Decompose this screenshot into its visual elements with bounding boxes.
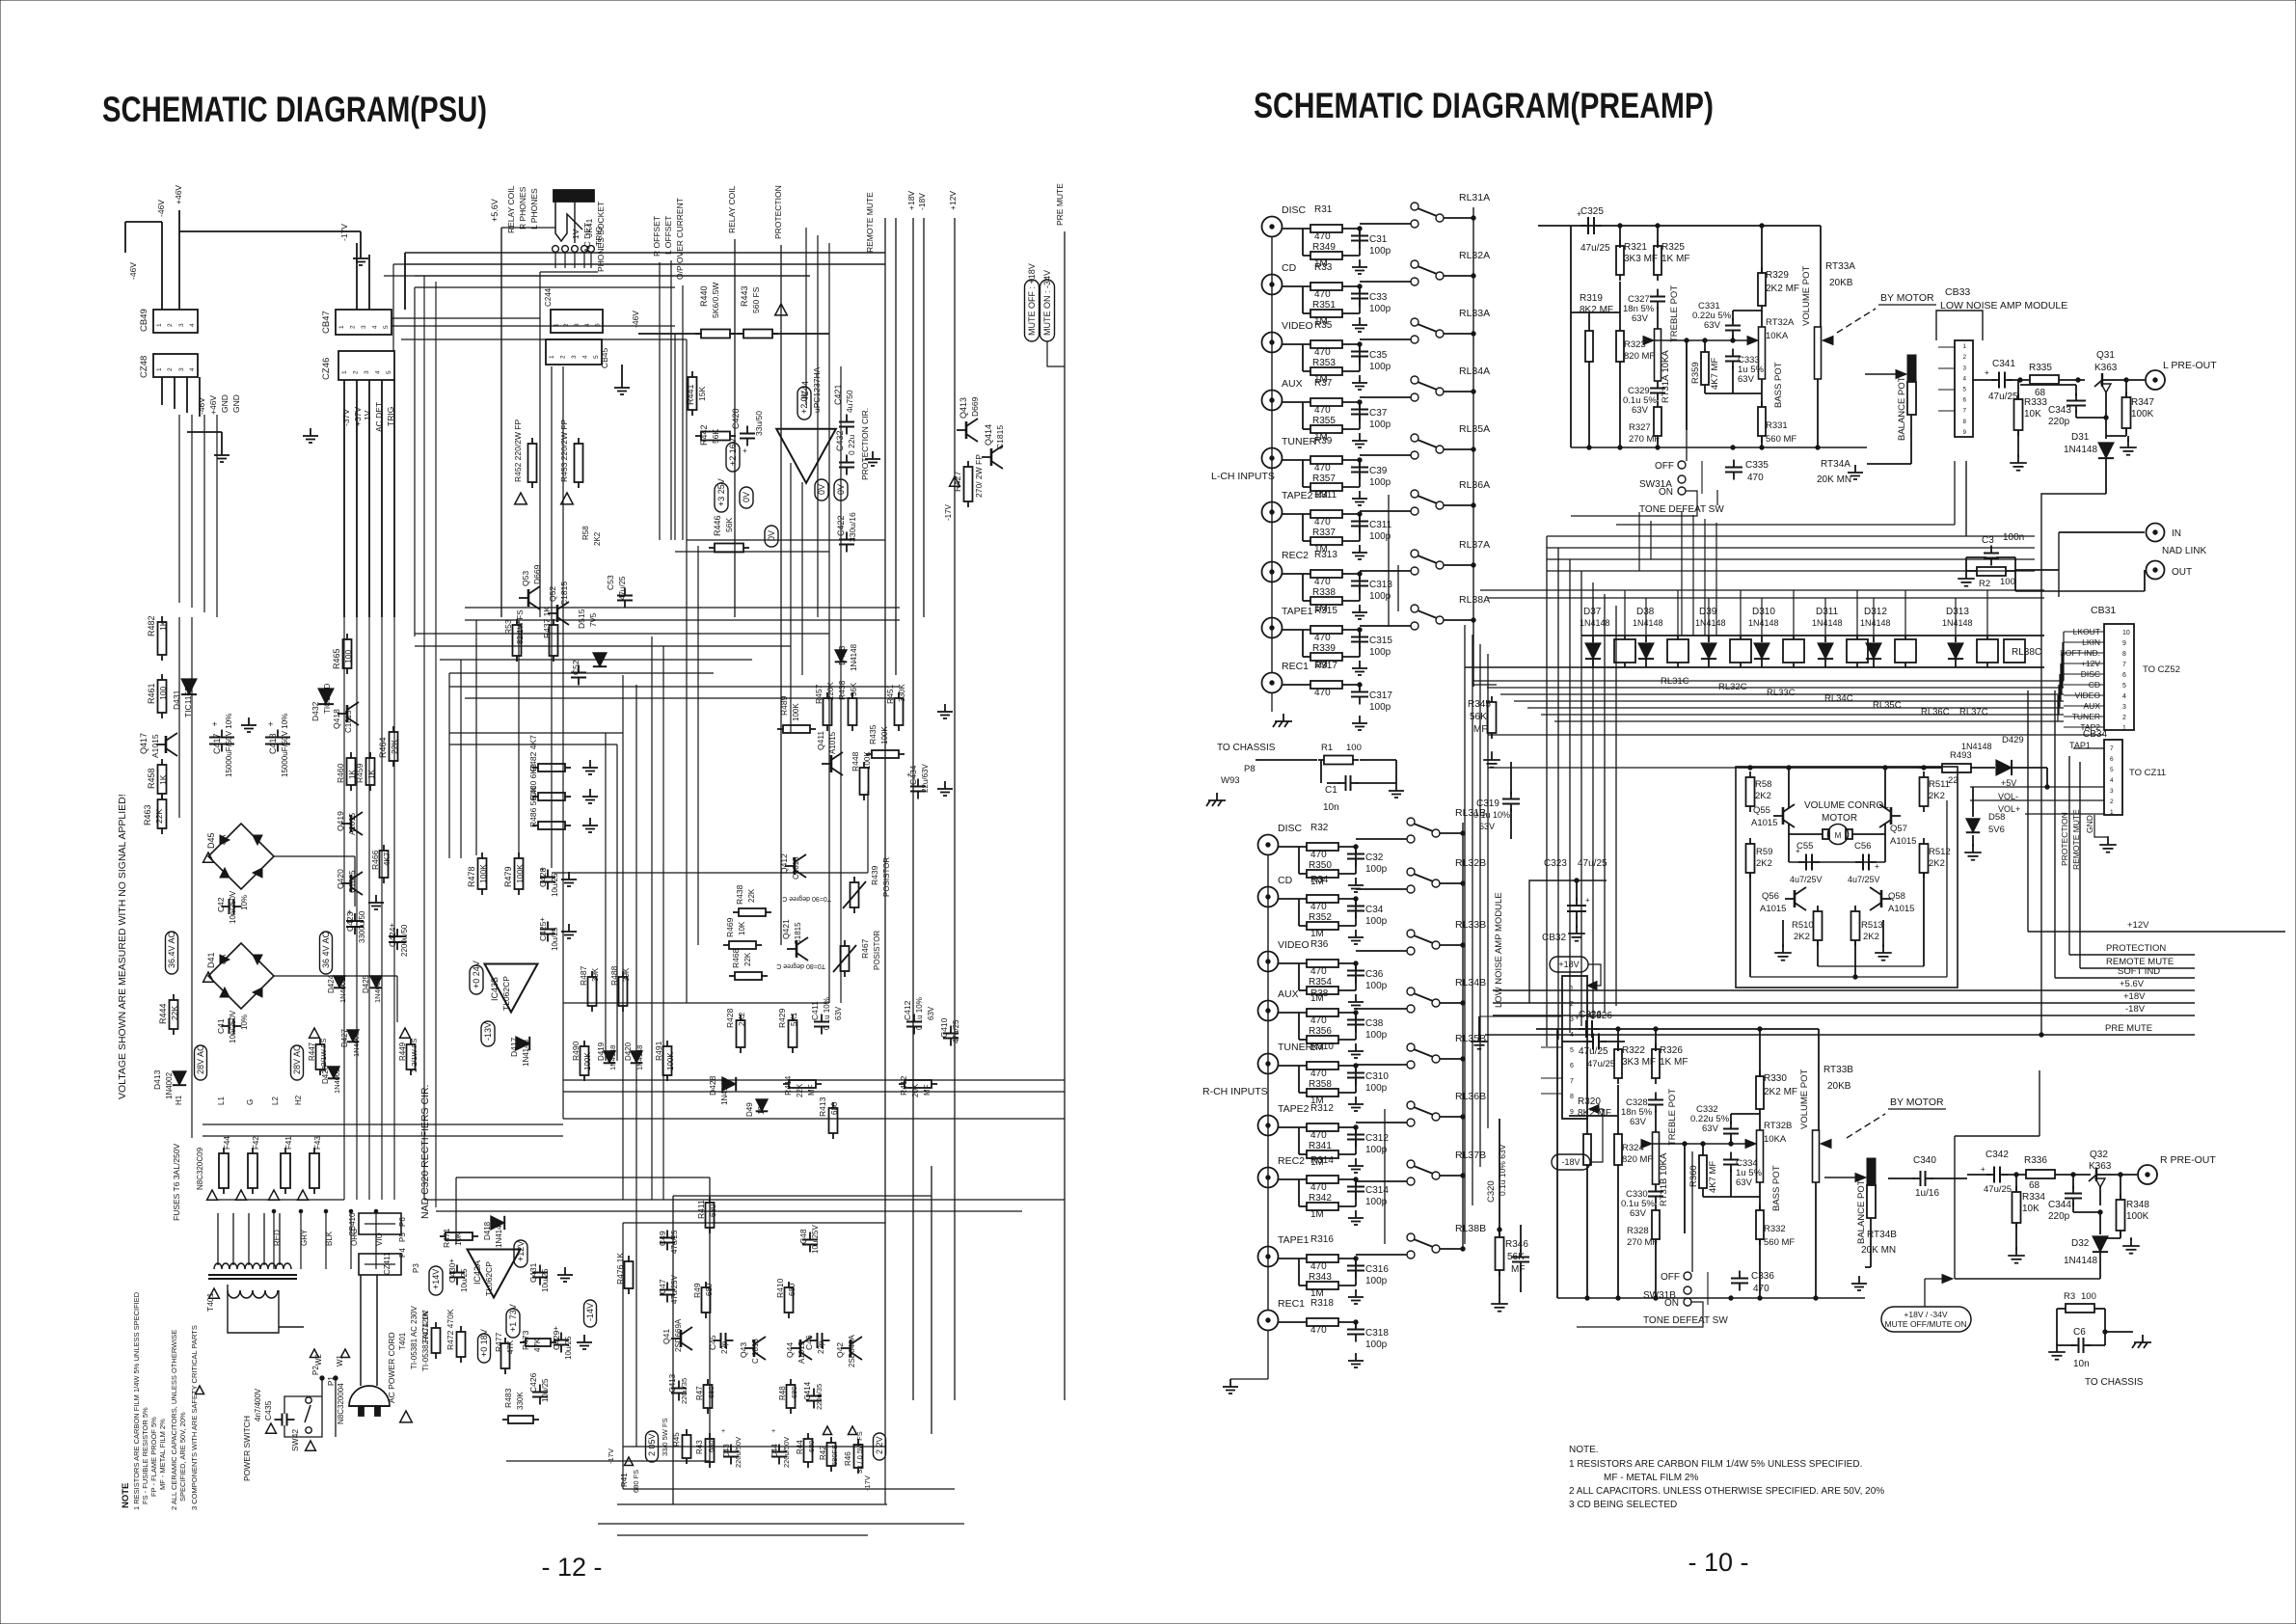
svg-text:1u/16: 1u/16 [1915, 1188, 1939, 1199]
svg-text:+2.0V: +2.0V [799, 391, 809, 414]
svg-text:R511: R511 [1929, 779, 1950, 790]
svg-text:470: 470 [1310, 966, 1327, 977]
svg-text:RL35C: RL35C [1873, 700, 1902, 711]
svg-text:R39: R39 [1314, 436, 1333, 447]
svg-text:15K: 15K [697, 387, 707, 401]
svg-text:56K: 56K [1507, 1252, 1525, 1262]
svg-text:TO CZ11: TO CZ11 [2129, 768, 2166, 778]
svg-text:OFF: OFF [1661, 1272, 1680, 1283]
svg-text:C325: C325 [1580, 206, 1604, 217]
svg-text:NAD LINK: NAD LINK [2162, 546, 2206, 556]
svg-text:+12V: +12V [948, 191, 958, 210]
svg-text:P2: P2 [311, 1366, 320, 1375]
svg-text:CB49: CB49 [139, 309, 149, 332]
svg-text:10u/25: 10u/25 [541, 1378, 550, 1402]
svg-text:MOTOR: MOTOR [1822, 813, 1857, 824]
svg-text:1N4148: 1N4148 [1633, 618, 1663, 628]
svg-text:P6: P6 [398, 1217, 407, 1227]
svg-text:22K: 22K [796, 1083, 804, 1097]
svg-text:R465: R465 [332, 648, 341, 669]
svg-text:4: 4 [1963, 375, 1967, 382]
svg-text:+: + [721, 1428, 725, 1435]
svg-text:20K MN: 20K MN [1861, 1245, 1896, 1256]
svg-text:R468: R468 [731, 948, 741, 968]
svg-text:100K: 100K [792, 703, 800, 721]
svg-text:0 1u 10%: 0 1u 10% [915, 997, 924, 1030]
svg-text:1N4148: 1N4148 [1961, 742, 1992, 751]
svg-text:1N4148: 1N4148 [2064, 1256, 2097, 1266]
svg-text:0 1u 10%: 0 1u 10% [823, 997, 831, 1030]
svg-text:ON: ON [1659, 487, 1673, 498]
svg-text:R360: R360 [1688, 1165, 1699, 1187]
svg-text:R348: R348 [2126, 1200, 2149, 1210]
svg-text:A1015: A1015 [1890, 836, 1916, 847]
svg-text:C341: C341 [1992, 359, 2015, 369]
svg-text:AC POWER CORD: AC POWER CORD [387, 1332, 396, 1403]
svg-text:4K7 MF: 4K7 MF [1710, 358, 1720, 390]
svg-text:1N4148: 1N4148 [1695, 618, 1726, 628]
svg-text:P3: P3 [412, 1263, 420, 1273]
svg-text:SW42: SW42 [290, 1429, 300, 1451]
svg-text:270/ 2W FP: 270/ 2W FP [974, 454, 984, 498]
svg-text:R32: R32 [1310, 823, 1329, 833]
svg-text:470: 470 [1310, 902, 1327, 912]
svg-text:R321: R321 [1624, 242, 1647, 253]
svg-text:2: 2 [167, 323, 174, 327]
svg-text:C6: C6 [2073, 1327, 2086, 1338]
svg-text:RT31B 10KA: RT31B 10KA [1659, 1152, 1669, 1206]
svg-text:RL37A: RL37A [1459, 539, 1490, 551]
svg-text:-13V: -13V [483, 1022, 493, 1041]
svg-text:R443: R443 [740, 285, 749, 307]
svg-text:470: 470 [1314, 405, 1331, 416]
svg-text:FS - FUSIBLE RESISTOR 5%: FS - FUSIBLE RESISTOR 5% [141, 1407, 149, 1504]
svg-text:100p: 100p [1365, 1030, 1388, 1041]
svg-text:RL36B: RL36B [1455, 1091, 1486, 1102]
svg-text:1: 1 [549, 355, 555, 359]
svg-text:RT31A 10KA: RT31A 10KA [1661, 350, 1671, 403]
svg-text:Q53: Q53 [521, 571, 530, 586]
svg-text:NOTE.: NOTE. [1569, 1445, 1599, 1455]
svg-text:47u/25: 47u/25 [1580, 243, 1610, 254]
svg-text:R487: R487 [579, 965, 588, 986]
svg-text:R333: R333 [2024, 397, 2047, 408]
svg-text:100p: 100p [1365, 864, 1388, 875]
svg-text:28V AC: 28V AC [292, 1044, 302, 1074]
svg-text:680FS: 680FS [830, 1445, 839, 1466]
svg-text:GND: GND [2085, 815, 2094, 833]
svg-text:R58: R58 [581, 526, 590, 540]
svg-text:100p: 100p [1369, 647, 1391, 658]
svg-text:4u7/25V: 4u7/25V [1848, 875, 1880, 884]
svg-text:CB31: CB31 [2091, 605, 2116, 616]
svg-text:REC2: REC2 [1278, 1155, 1305, 1167]
svg-text:F44: F44 [223, 1136, 231, 1150]
svg-text:82/1W FS: 82/1W FS [516, 609, 525, 644]
svg-text:C34: C34 [1365, 905, 1384, 915]
svg-text:RL37C: RL37C [1959, 707, 1988, 717]
svg-text:BASS POT: BASS POT [1771, 1165, 1782, 1211]
svg-text:1: 1 [338, 325, 345, 329]
svg-text:BY MOTOR: BY MOTOR [1890, 1096, 1944, 1108]
svg-text:RT32B: RT32B [1764, 1121, 1792, 1131]
svg-text:R41: R41 [620, 1473, 629, 1487]
svg-text:R478: R478 [467, 866, 476, 887]
svg-text:CB32: CB32 [1542, 933, 1566, 943]
svg-text:8: 8 [1570, 1094, 1574, 1100]
svg-text:1M: 1M [1310, 929, 1324, 939]
svg-text:R330: R330 [1764, 1073, 1787, 1084]
svg-text:63V: 63V [1704, 320, 1721, 331]
svg-text:47u/25: 47u/25 [670, 1230, 679, 1254]
svg-text:10%: 10% [240, 1015, 249, 1030]
svg-text:R327: R327 [1629, 422, 1651, 433]
svg-text:R410: R410 [775, 1278, 785, 1298]
svg-text:G: G [246, 1099, 255, 1105]
svg-text:RT34B: RT34B [1867, 1230, 1897, 1240]
svg-text:R469: R469 [725, 917, 735, 937]
svg-text:RT34A: RT34A [1821, 459, 1850, 470]
svg-text:3: 3 [361, 325, 367, 329]
svg-text:- 12 -: - 12 - [541, 1553, 602, 1582]
svg-text:Q43: Q43 [739, 1342, 748, 1358]
svg-text:Q421: Q421 [781, 919, 791, 939]
svg-text:CD: CD [1282, 262, 1297, 274]
svg-text:C39: C39 [1369, 466, 1388, 476]
svg-text:5: 5 [386, 370, 392, 374]
svg-text:K363: K363 [2089, 1161, 2112, 1172]
svg-text:0 22u: 0 22u [847, 434, 856, 455]
svg-text:5: 5 [2122, 683, 2126, 690]
svg-text:R316: R316 [1310, 1234, 1334, 1245]
svg-text:9: 9 [2122, 640, 2126, 647]
svg-text:C320: C320 [1486, 1180, 1497, 1203]
svg-text:3: 3 [178, 367, 185, 371]
svg-text:L1: L1 [217, 1096, 226, 1105]
svg-text:10%: 10% [240, 895, 249, 910]
svg-text:+: + [1575, 1013, 1580, 1022]
svg-text:C336: C336 [1751, 1271, 1774, 1282]
svg-text:2K2 MF: 2K2 MF [1766, 284, 1799, 294]
svg-text:560 FS: 560 FS [751, 286, 761, 313]
svg-text:100: 100 [2081, 1291, 2096, 1302]
svg-text:T0=80 degree C: T0=80 degree C [776, 962, 825, 969]
svg-text:R320: R320 [1578, 1096, 1601, 1107]
svg-text:1: 1 [341, 370, 348, 374]
svg-text:+12V: +12V [516, 1241, 526, 1261]
svg-text:+18V: +18V [1558, 960, 1579, 969]
svg-text:C420: C420 [731, 408, 741, 429]
svg-text:47u/25: 47u/25 [1984, 1184, 2012, 1195]
svg-text:C310: C310 [1365, 1071, 1389, 1082]
svg-text:1N4148: 1N4148 [1748, 618, 1779, 628]
svg-text:LOW NOISE AMP MODULE: LOW NOISE AMP MODULE [1940, 300, 2067, 311]
svg-text:+0 18V: +0 18V [479, 1329, 489, 1357]
svg-text:22K: 22K [154, 809, 164, 824]
svg-text:2SB649A: 2SB649A [848, 1335, 856, 1367]
svg-text:MF: MF [807, 1084, 816, 1096]
svg-text:IN: IN [2172, 528, 2181, 539]
svg-text:2: 2 [1963, 354, 1967, 361]
svg-text:K363: K363 [2094, 363, 2118, 373]
svg-text:100p: 100p [1369, 591, 1391, 602]
svg-text:R319: R319 [1580, 293, 1603, 304]
svg-text:22K: 22K [747, 888, 756, 903]
svg-text:-46V: -46V [631, 311, 640, 328]
svg-text:20KB: 20KB [1827, 1081, 1851, 1092]
svg-text:RL37B: RL37B [1455, 1150, 1486, 1161]
svg-text:470: 470 [1310, 1182, 1327, 1193]
svg-text:CD: CD [1278, 875, 1293, 886]
svg-text:680: 680 [707, 1386, 716, 1398]
svg-text:R477: R477 [494, 1332, 503, 1352]
svg-text:+5.6V: +5.6V [490, 199, 500, 222]
svg-text:+: + [743, 447, 747, 455]
svg-text:RT33A: RT33A [1825, 261, 1855, 272]
svg-text:C33: C33 [1369, 292, 1388, 303]
svg-text:7: 7 [1963, 408, 1967, 415]
svg-text:C323: C323 [1544, 858, 1567, 869]
svg-text:R347: R347 [2131, 397, 2154, 408]
svg-text:3: 3 [571, 355, 578, 359]
svg-text:C244: C244 [544, 287, 553, 307]
svg-text:+: + [771, 1428, 775, 1435]
svg-text:A1015: A1015 [1751, 818, 1777, 828]
svg-text:63V: 63V [834, 1006, 843, 1020]
svg-text:100: 100 [2000, 577, 2015, 587]
svg-text:9: 9 [1570, 1109, 1574, 1116]
svg-text:OFF: OFF [1655, 461, 1674, 472]
svg-text:PRE MUTE: PRE MUTE [2105, 1023, 2152, 1034]
svg-text:5: 5 [2110, 767, 2114, 773]
svg-text:220p: 220p [2048, 1211, 2070, 1222]
svg-text:PROTECTION: PROTECTION [773, 185, 783, 239]
svg-text:+18V / -34V: +18V / -34V [1904, 1310, 1947, 1319]
svg-text:C42: C42 [216, 897, 226, 912]
svg-text:C326: C326 [1579, 1010, 1602, 1020]
svg-text:63V: 63V [1738, 374, 1755, 385]
svg-text:1 RESISTORS ARE CARBON FILM 1: 1 RESISTORS ARE CARBON FILM 1/4W 5% UNLE… [132, 1291, 141, 1510]
svg-text:RELAY COIL: RELAY COIL [506, 185, 516, 233]
svg-text:10n: 10n [2073, 1359, 2090, 1369]
svg-text:TONE DEFEAT SW: TONE DEFEAT SW [1643, 1315, 1728, 1326]
svg-text:3: 3 [1963, 365, 1967, 371]
svg-text:R312: R312 [1310, 1103, 1334, 1114]
svg-text:R315: R315 [1314, 606, 1337, 616]
svg-text:R513: R513 [1861, 920, 1883, 931]
svg-text:R411: R411 [696, 1200, 706, 1219]
svg-text:+2 16V: +2 16V [728, 438, 738, 466]
svg-text:820 MF: 820 MF [1622, 1154, 1653, 1165]
svg-text:1 RESISTORS ARE CARBON FILM 1: 1 RESISTORS ARE CARBON FILM 1/4W 5% UNLE… [1569, 1459, 1862, 1470]
svg-text:CB33: CB33 [1945, 286, 1970, 298]
svg-text:D515: D515 [577, 609, 586, 629]
svg-text:R438: R438 [837, 680, 847, 700]
svg-text:2: 2 [559, 355, 566, 359]
svg-text:RL38C: RL38C [2012, 647, 2041, 658]
svg-text:-37V: -37V [341, 409, 351, 426]
svg-text:560 MF: 560 MF [1766, 434, 1796, 445]
svg-text:R1: R1 [1321, 743, 1333, 753]
svg-text:10K: 10K [738, 921, 746, 935]
svg-text:+18V: +18V [2123, 991, 2146, 1002]
svg-text:1: 1 [156, 323, 163, 327]
svg-text:OUT: OUT [2172, 567, 2192, 578]
svg-text:R322: R322 [1622, 1045, 1645, 1056]
svg-text:470: 470 [1310, 1015, 1327, 1026]
svg-text:20K: 20K [911, 1083, 920, 1097]
svg-text:VOLUME POT: VOLUME POT [1801, 266, 1812, 326]
svg-text:Q413: Q413 [959, 397, 968, 419]
svg-text:JK41: JK41 [584, 218, 594, 237]
svg-text:3K3 MF: 3K3 MF [1622, 1057, 1656, 1068]
svg-text:Q411: Q411 [816, 731, 825, 750]
svg-text:8K2 MF: 8K2 MF [1578, 1108, 1611, 1119]
svg-text:33/0 5W FS: 33/0 5W FS [661, 1418, 669, 1456]
svg-text:47K: 47K [506, 1340, 515, 1354]
svg-text:D429: D429 [2002, 735, 2024, 745]
svg-text:2 05V: 2 05V [647, 1433, 657, 1456]
svg-text:BY MOTOR: BY MOTOR [1880, 292, 1934, 304]
svg-text:100p: 100p [1369, 531, 1391, 542]
svg-text:M: M [1835, 831, 1842, 840]
svg-text:8: 8 [2122, 651, 2126, 658]
svg-text:REMOTE MUTE: REMOTE MUTE [865, 192, 875, 253]
svg-text:R452 220/2W FP: R452 220/2W FP [513, 419, 523, 482]
svg-text:C344: C344 [2048, 1200, 2071, 1210]
svg-text:100K: 100K [2131, 409, 2154, 420]
svg-text:100p: 100p [1369, 246, 1391, 257]
svg-text:R OFFSET: R OFFSET [652, 216, 662, 257]
svg-text:R463: R463 [143, 804, 152, 826]
svg-text:C412: C412 [903, 1000, 912, 1020]
svg-text:PHONES SOCKET: PHONES SOCKET [596, 202, 606, 272]
svg-text:220u/35: 220u/35 [680, 1378, 689, 1404]
svg-text:R314: R314 [1310, 1155, 1334, 1166]
svg-text:A1015: A1015 [1760, 904, 1786, 914]
svg-text:Q52: Q52 [548, 586, 557, 602]
svg-text:R46: R46 [844, 1451, 852, 1466]
svg-text:7: 7 [1570, 1078, 1574, 1085]
svg-text:SCHEMATIC DIAGRAM(PSU): SCHEMATIC DIAGRAM(PSU) [102, 90, 487, 129]
svg-text:Q414: Q414 [984, 424, 993, 446]
svg-text:MF: MF [923, 1084, 932, 1096]
svg-text:1: 1 [2122, 725, 2126, 732]
svg-text:4: 4 [2110, 777, 2114, 784]
svg-text:-18V: -18V [2125, 1004, 2146, 1015]
svg-text:RL34B: RL34B [1455, 977, 1486, 988]
svg-text:Q31: Q31 [2096, 350, 2115, 361]
svg-text:33u/50: 33u/50 [754, 411, 764, 436]
svg-text:C343: C343 [2048, 405, 2071, 416]
svg-text:L PRE-OUT: L PRE-OUT [2163, 360, 2217, 371]
svg-text:R331: R331 [1766, 420, 1788, 431]
svg-text:C432: C432 [835, 430, 845, 451]
svg-text:36.4V AC: 36.4V AC [167, 931, 176, 968]
svg-text:C318: C318 [1365, 1328, 1389, 1339]
svg-text:4: 4 [189, 323, 196, 327]
svg-text:R325: R325 [1661, 242, 1685, 253]
svg-text:+37V: +37V [353, 407, 363, 426]
svg-text:R329: R329 [1766, 270, 1789, 281]
svg-text:R2: R2 [1979, 579, 1990, 589]
svg-text:Q56: Q56 [1762, 891, 1779, 902]
svg-text:VOLTAGE SHOWN ARE MEASURED WIT: VOLTAGE SHOWN ARE MEASURED WITH NO SIGNA… [117, 794, 128, 1099]
svg-text:6: 6 [2122, 672, 2126, 679]
svg-text:1V: 1V [363, 410, 372, 420]
svg-text:Q58: Q58 [1888, 891, 1905, 902]
svg-text:Q32: Q32 [2090, 1150, 2108, 1160]
svg-text:100K: 100K [583, 1052, 592, 1070]
svg-text:+46V: +46V [174, 185, 183, 204]
svg-text:C411: C411 [810, 1001, 820, 1020]
svg-text:Q417: Q417 [139, 733, 149, 754]
svg-text:CB410: CB410 [348, 1212, 357, 1236]
svg-text:100p: 100p [1365, 981, 1388, 991]
svg-text:22K: 22K [743, 952, 752, 966]
svg-text:+0 24V: +0 24V [472, 961, 481, 988]
svg-text:9: 9 [1963, 429, 1967, 436]
svg-text:RL35A: RL35A [1459, 423, 1490, 435]
svg-text:VOLUME POT: VOLUME POT [1799, 1069, 1810, 1129]
svg-text:R483: R483 [503, 1388, 513, 1408]
svg-text:R472 470K: R472 470K [446, 1309, 455, 1350]
svg-text:VIDEO: VIDEO [1278, 939, 1310, 951]
svg-text:C317: C317 [1369, 690, 1392, 701]
svg-text:PRE MUTE: PRE MUTE [1055, 183, 1065, 226]
svg-text:1N4148: 1N4148 [1860, 618, 1891, 628]
svg-text:1: 1 [2110, 809, 2114, 816]
svg-text:AUX: AUX [1278, 988, 1299, 1000]
svg-text:2K2: 2K2 [1929, 791, 1945, 801]
svg-text:AUX: AUX [1282, 378, 1303, 390]
svg-text:RL32A: RL32A [1459, 250, 1490, 261]
svg-text:R471: R471 [442, 1228, 451, 1248]
svg-text:R414: R414 [783, 1075, 793, 1096]
svg-text:+: + [1985, 368, 1989, 377]
svg-text:D39: D39 [1699, 607, 1717, 617]
svg-text:R482: R482 [147, 615, 156, 636]
svg-text:2 ALL CAPACITORS. UNLESS OTHE: 2 ALL CAPACITORS. UNLESS OTHERWISE SPECI… [1569, 1486, 1884, 1497]
svg-text:100: 100 [1346, 743, 1362, 753]
svg-text:DISC: DISC [1278, 823, 1303, 834]
svg-text:-18V: -18V [917, 193, 927, 210]
svg-text:63V: 63V [1632, 405, 1649, 416]
svg-text:L-CH INPUTS: L-CH INPUTS [1211, 471, 1275, 482]
svg-text:-46V: -46V [156, 200, 166, 217]
svg-text:R53: R53 [503, 619, 513, 635]
svg-text:47u/25: 47u/25 [1587, 1059, 1615, 1069]
svg-text:R444: R444 [158, 1003, 168, 1024]
svg-text:100p: 100p [1369, 702, 1391, 713]
svg-text:R490: R490 [571, 1041, 581, 1061]
svg-text:R466: R466 [370, 850, 380, 870]
svg-text:470: 470 [1314, 231, 1331, 242]
svg-text:O/P OVER CURRENT: O/P OVER CURRENT [675, 198, 685, 280]
svg-text:W1: W1 [336, 1354, 344, 1367]
svg-text:R59: R59 [1756, 847, 1772, 857]
svg-text:R458: R458 [147, 768, 156, 789]
svg-text:TI-05381 AC 230V: TI-05381 AC 230V [410, 1306, 419, 1369]
svg-text:R467: R467 [860, 938, 870, 959]
svg-text:C340: C340 [1913, 1155, 1936, 1166]
svg-text:4u7/25V: 4u7/25V [1790, 875, 1823, 884]
svg-text:Q57: Q57 [1890, 824, 1907, 834]
svg-text:0V: 0V [817, 484, 826, 495]
svg-text:4: 4 [189, 367, 196, 371]
svg-text:R413: R413 [818, 1096, 827, 1117]
svg-text:N8C320004: N8C320004 [337, 1383, 345, 1424]
